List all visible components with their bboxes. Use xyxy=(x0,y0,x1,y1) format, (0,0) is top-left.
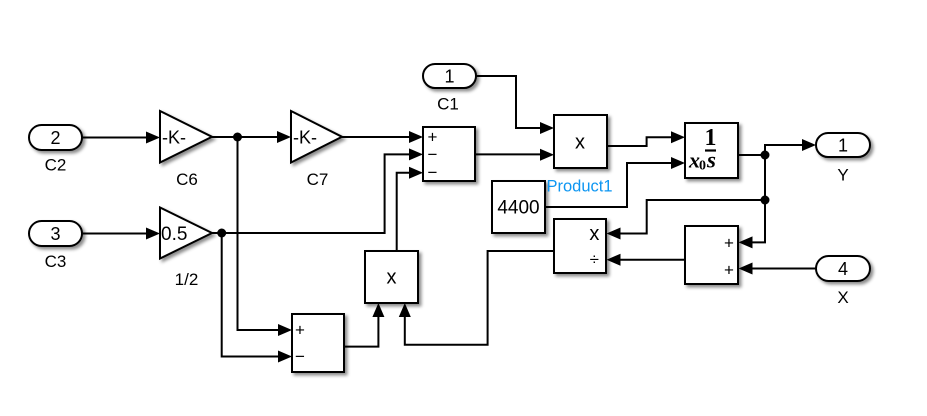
svg-text:2: 2 xyxy=(50,128,60,148)
svg-text:+: + xyxy=(295,320,305,339)
svg-text:X: X xyxy=(837,288,848,307)
svg-text:C2: C2 xyxy=(45,156,67,175)
svg-text:C6: C6 xyxy=(176,170,198,189)
svg-text:0: 0 xyxy=(699,159,706,174)
svg-text:4400: 4400 xyxy=(497,198,539,219)
svg-text:C7: C7 xyxy=(307,170,329,189)
svg-text:s: s xyxy=(706,148,716,173)
svg-text:1: 1 xyxy=(444,67,454,87)
svg-text:Product1: Product1 xyxy=(547,178,613,196)
svg-text:Y: Y xyxy=(837,166,848,185)
svg-text:−: − xyxy=(428,163,438,182)
svg-text:C1: C1 xyxy=(437,95,459,114)
svg-text:x: x xyxy=(589,223,599,245)
svg-text:÷: ÷ xyxy=(590,250,599,269)
svg-text:C3: C3 xyxy=(45,252,67,271)
svg-text:-K-: -K- xyxy=(293,128,317,148)
svg-text:−: − xyxy=(428,145,438,164)
svg-text:1/2: 1/2 xyxy=(175,270,199,289)
svg-text:4: 4 xyxy=(838,259,848,279)
svg-text:−: − xyxy=(295,347,305,366)
svg-text:+: + xyxy=(724,260,734,279)
svg-text:+: + xyxy=(428,127,438,146)
svg-text:+: + xyxy=(724,233,734,252)
svg-text:1: 1 xyxy=(838,136,848,156)
svg-text:x: x xyxy=(575,132,585,154)
svg-text:0.5: 0.5 xyxy=(161,224,187,245)
svg-text:-K-: -K- xyxy=(162,128,186,148)
svg-text:x: x xyxy=(387,267,397,289)
svg-text:3: 3 xyxy=(50,224,60,244)
